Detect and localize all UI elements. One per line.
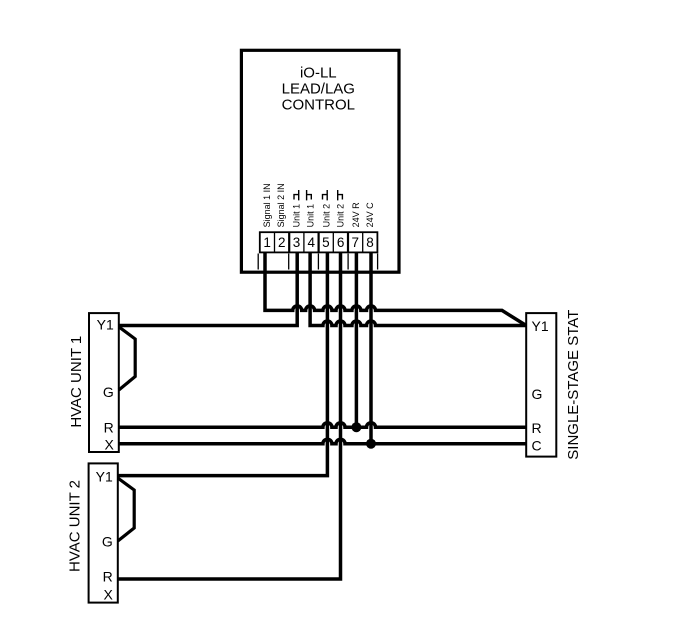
svg-text:R: R xyxy=(104,419,114,435)
svg-text:R: R xyxy=(532,420,542,436)
svg-text:Y1: Y1 xyxy=(97,317,114,333)
svg-text:LEAD/LAG: LEAD/LAG xyxy=(282,81,355,98)
svg-text:24V R: 24V R xyxy=(351,202,361,228)
svg-text:G: G xyxy=(102,534,113,550)
svg-text:Unit 2: Unit 2 xyxy=(321,204,331,228)
svg-text:Signal 1 IN: Signal 1 IN xyxy=(262,183,272,227)
svg-text:Unit 2: Unit 2 xyxy=(335,204,345,228)
svg-text:1: 1 xyxy=(263,235,271,250)
svg-text:2: 2 xyxy=(278,235,286,250)
svg-text:R: R xyxy=(103,569,113,585)
svg-text:6: 6 xyxy=(337,235,345,250)
svg-text:7: 7 xyxy=(352,235,360,250)
svg-text:G: G xyxy=(103,384,114,400)
svg-text:3: 3 xyxy=(293,235,301,250)
svg-text:CONTROL: CONTROL xyxy=(282,97,355,114)
svg-text:5: 5 xyxy=(322,235,330,250)
svg-text:iO-LL: iO-LL xyxy=(300,64,337,81)
svg-text:Unit 1: Unit 1 xyxy=(292,204,302,228)
svg-text:8: 8 xyxy=(366,235,374,250)
svg-text:Y1: Y1 xyxy=(532,318,549,334)
svg-text:X: X xyxy=(103,587,113,603)
svg-text:G: G xyxy=(532,386,543,402)
svg-text:Unit 1: Unit 1 xyxy=(306,204,316,228)
svg-text:HVAC UNIT 1: HVAC UNIT 1 xyxy=(68,336,85,428)
svg-text:4: 4 xyxy=(307,235,315,250)
svg-text:HVAC UNIT 2: HVAC UNIT 2 xyxy=(67,480,84,572)
svg-text:SINGLE-STAGE STAT: SINGLE-STAGE STAT xyxy=(565,310,582,460)
svg-text:C: C xyxy=(532,438,542,454)
svg-text:Signal 2 IN: Signal 2 IN xyxy=(276,183,286,227)
svg-text:24V C: 24V C xyxy=(365,202,375,228)
svg-text:Y1: Y1 xyxy=(96,469,113,485)
svg-text:X: X xyxy=(104,437,114,453)
